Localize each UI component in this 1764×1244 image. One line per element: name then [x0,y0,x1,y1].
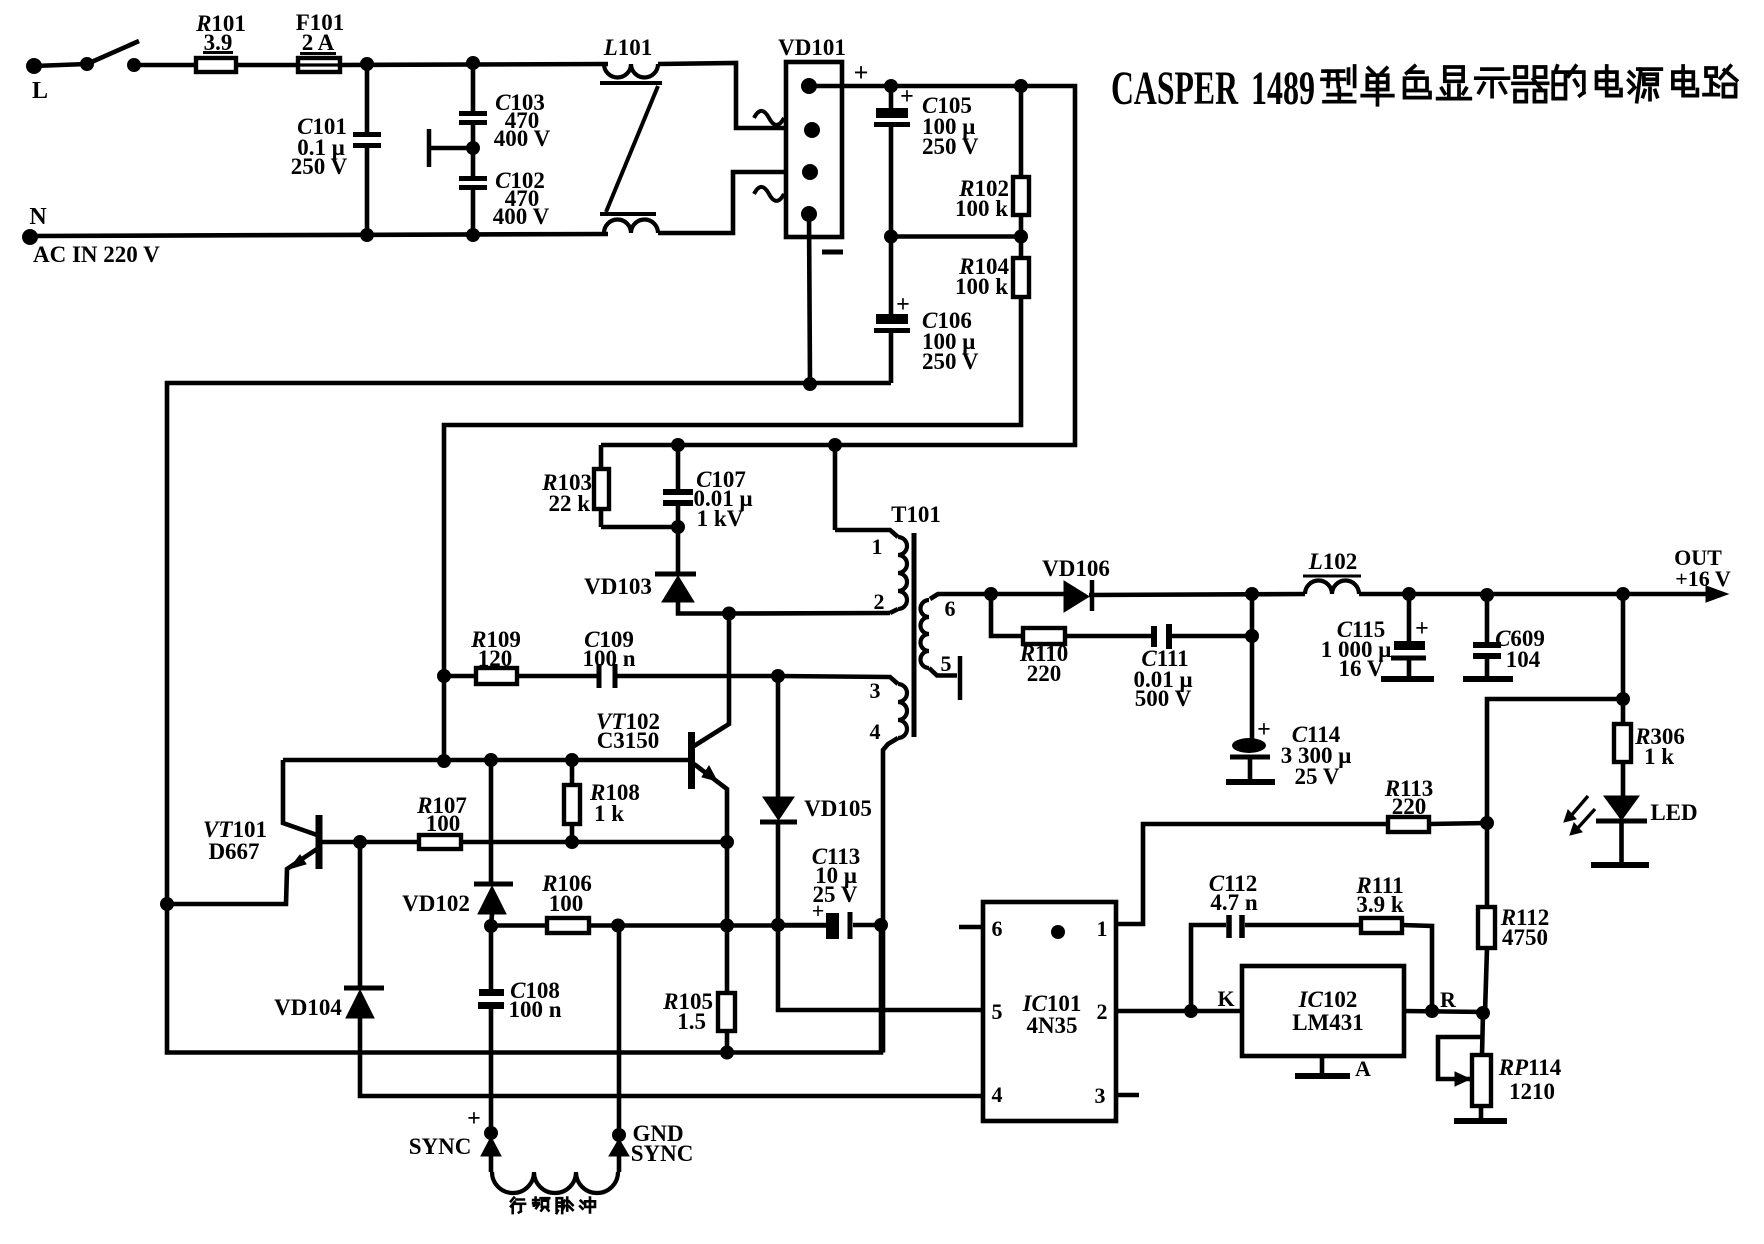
svg-text:+: + [854,58,869,87]
svg-text:1 k: 1 k [1644,744,1674,769]
svg-text:SYNC: SYNC [409,1134,472,1159]
junction: VD102 anode / R106 / C108 [484,919,498,933]
svg-text:250 V: 250 V [291,154,348,179]
junction: R pin / R111 [1425,1004,1439,1018]
resistor R101 3.9 [196,58,236,72]
LED light arrows [1570,796,1588,817]
title Chinese text: model monochrome display power supply circuit [1322,66,1355,102]
capacitor C112 4.7n [1191,925,1226,1011]
svg-text:2: 2 [874,589,885,614]
wire T101 pin1 branch [833,445,838,530]
capacitor C103 470 400V [471,63,476,112]
node GND SYNC terminal [612,1128,626,1142]
svg-text:100 k: 100 k [955,196,1008,221]
svg-text:1489: 1489 [1251,62,1315,115]
junction: VT101 emitter / return rail [160,897,174,911]
diode VD104 [358,842,363,988]
wire bridge - output down [809,214,810,384]
svg-text:+: + [1257,717,1271,743]
svg-text:T101: T101 [891,502,941,527]
svg-text:+: + [467,1106,481,1132]
wire + rail to HV feed corner [835,86,1075,445]
svg-text:IC102: IC102 [1298,987,1358,1012]
svg-text:100: 100 [549,891,584,916]
svg-text:VD101: VD101 [778,35,846,60]
wire VD104 anode to ground line [360,1018,983,1096]
wire feedback tap to R113/R112 node [1487,699,1623,823]
svg-text:3.9 k: 3.9 k [1356,892,1404,917]
node N (AC neutral terminal) [22,229,38,245]
wire C109 to T101 pin3 [617,674,778,679]
shunt regulator IC102 LM431 [1242,966,1404,1056]
svg-text:1.5: 1.5 [677,1009,706,1034]
resistor R105 1.5 [725,926,730,994]
sync coupling coil (line-frequency pulse source) [489,1156,494,1172]
wire T101 pin2 line [729,611,890,616]
junction: base line / VD102 [484,753,498,767]
svg-text:1 kV: 1 kV [697,506,744,531]
resistor R107 100 [419,835,461,849]
svg-text:1: 1 [872,534,883,559]
wire T101 pin6 to rectifier node [937,592,991,597]
svg-text:25 V: 25 V [1295,764,1340,789]
svg-text:CASPER: CASPER [1111,62,1239,115]
optocoupler IC101 4N35 [983,902,1116,1121]
junction: + rail / R102 [1014,79,1028,93]
potentiometer RP114 1210 [1482,1013,1483,1055]
wire +16V output rail [1359,592,1714,597]
svg-text:500 V: 500 V [1135,686,1192,711]
svg-text:D667: D667 [208,839,259,864]
svg-text:100 n: 100 n [508,997,561,1022]
svg-text:VD103: VD103 [584,574,652,599]
svg-text:VD105: VD105 [804,796,872,821]
svg-text:K: K [1217,986,1234,1011]
svg-text:1: 1 [1097,916,1108,941]
capacitor C102 470 400V [471,148,476,177]
junction: base line / R108 [565,753,579,767]
junction: R106 / GND SYNC drop [611,919,625,933]
svg-text:400 V: 400 V [493,204,550,229]
resistor R106 100 [491,923,547,928]
ground: RP114 [1479,1106,1484,1120]
diode VD106 [991,592,1064,597]
svg-text:5: 5 [992,999,1003,1024]
wire L101 top to bridge ~ input 1 [658,63,788,128]
wire VT101 collector to base line [283,760,317,835]
node L (AC live terminal) [26,58,42,74]
svg-text:A: A [1355,1056,1371,1081]
svg-text:R: R [1440,987,1457,1012]
junction: C103 / C102 / chassis stub [466,141,480,155]
junction: R113 / R112 / +16V dropper [1480,816,1494,830]
svg-text:250 V: 250 V [922,134,979,159]
wire N rail [30,234,608,236]
svg-text:100 n: 100 n [582,646,635,671]
capacitor C609 104 [1485,595,1490,643]
VD101 ~ symbol lower [754,187,784,201]
VD101 ~ symbol upper [754,111,784,125]
junction: R107 line / R108 [565,835,579,849]
junction: +16V / R306 branch [1616,587,1630,601]
wire bridge + output rail [809,84,891,89]
RP114 wiper arm [1438,1037,1482,1079]
svg-text:1 k: 1 k [594,801,624,826]
ground: C114 [1226,779,1275,785]
resistor R109 120 [444,674,476,679]
resistor R113 220 [1388,817,1429,832]
svg-text:LM431: LM431 [1292,1010,1364,1035]
wire VT101 base to R107 line [322,840,727,845]
ground: C115 [1381,676,1434,682]
junction: pin6 / VD106 / R110 [984,587,998,601]
svg-text:VD102: VD102 [402,891,470,916]
wire R103/C107 bottom node [601,525,678,530]
LED indicator diode [1621,762,1626,797]
diode VD103 [676,527,681,574]
wire IC101 pin1 to R113 [1116,824,1388,924]
junction: R107 line / VD104 [353,835,367,849]
svg-text:4N35: 4N35 [1026,1013,1077,1038]
svg-text:RP114: RP114 [1498,1055,1562,1080]
wire R101 to F101 [236,63,298,68]
junction: N rail / C101 [360,228,374,242]
svg-text:25 V: 25 V [813,882,858,907]
junction: +16V / C115 [1402,587,1416,601]
wire IC102 R to R112 [1404,1011,1485,1012]
chassis connection at T101 pin 5 [958,656,963,700]
svg-text:+: + [1415,616,1429,642]
junction: R104 feed / R109 [437,669,451,683]
IC102 pin A with ground [1320,1056,1325,1074]
svg-text:AC IN 220 V: AC IN 220 V [33,242,160,267]
T101 primary winding pins 1-2 [835,530,898,537]
capacitor C107 0.01u 1kV [676,445,681,490]
junction: pin4 line / C113 [874,918,888,932]
resistor R108 1k [570,760,575,785]
chassis connection stub at C103/C102 midpoint [430,146,473,151]
junction: L rail / C103 [466,56,480,70]
svg-text:+: + [900,84,914,110]
svg-text:2 A: 2 A [302,30,335,55]
svg-text:VD106: VD106 [1042,556,1110,581]
svg-text:6: 6 [992,916,1003,941]
svg-text:120: 120 [478,646,513,671]
svg-text:104: 104 [1506,647,1541,672]
T101 feedback winding pins 3-4 [778,676,898,684]
svg-text:LED: LED [1650,800,1697,825]
junction: pin2 line / C112 branch [1184,1004,1198,1018]
IC101 pin 6 stub [959,925,983,930]
junction: R105 / primary return rail [720,1046,734,1060]
capacitor C115 1000u 16V (electrolytic) [1407,594,1412,642]
svg-text:6: 6 [945,596,956,621]
junction: C107 / VD103 [671,520,685,534]
wire primary return rail (C106- to left edge, down to bottom) [167,383,891,1053]
svg-text:L101: L101 [603,35,653,60]
wire +16V to R306 [1621,594,1626,724]
svg-text:4.7 n: 4.7 n [1210,890,1258,915]
svg-text:N: N [29,204,47,230]
ground: LED [1591,862,1649,868]
svg-text:250 V: 250 V [922,349,979,374]
junction: VD106 cathode rail / C111 [1245,587,1259,601]
T101 secondary winding pins 6-5 [930,594,938,599]
capacitor C111 0.01u 500V [1065,634,1151,639]
junction: +16V / C609 [1480,588,1494,602]
wire L terminal to switch [34,64,87,66]
wire F101 to L101 (L rail) [340,64,608,65]
svg-text:100: 100 [426,811,461,836]
svg-text:L102: L102 [1308,549,1358,574]
junction: pin3 line / VD105 [771,669,785,683]
svg-text:SYNC: SYNC [631,1141,694,1166]
junction: N rail / C102 [466,228,480,242]
junction: base line / R104 feed [437,754,451,768]
capacitor C109 100n [517,674,597,679]
capacitor C108 100n [489,926,494,990]
junction: bridge - / primary return rail [803,377,817,391]
T101 core [912,533,917,737]
svg-text:22 k: 22 k [548,491,590,516]
node OUT +16V with arrow [1706,586,1728,602]
resistor R112 4750 [1485,823,1490,907]
resistor R102 100k [1019,86,1024,177]
svg-text:220: 220 [1027,661,1062,686]
junction: R107 line / VT102 emitter [720,835,734,849]
wire GND SYNC to R106 node [617,926,622,1136]
svg-text:16 V: 16 V [1339,656,1384,681]
resistor R103 22k [599,445,604,469]
IC101 internal marker dot [1051,925,1065,939]
resistor R111 3.9k [1361,918,1402,933]
label: line-frequency pulse (hang pin mai chong) [511,1198,525,1214]
power switch [80,57,94,71]
svg-text:3: 3 [870,678,881,703]
svg-text:4750: 4750 [1502,925,1548,950]
junction: HV feed / T101 pin1 branch [828,438,842,452]
diode VD105 [776,676,781,797]
wire switch to R101 [134,63,196,68]
junction: C105- / R102 / R104 node [884,230,898,244]
diode VD102 [489,760,494,884]
resistor R306 1k [1614,724,1631,762]
resistor R104 100k [1019,237,1024,259]
wire VD103 anode to T101 pin2 line [678,602,729,614]
ground: C609 [1463,676,1513,682]
junction: L rail / C101 [360,57,374,71]
svg-text:C3150: C3150 [597,728,660,753]
svg-text:2: 2 [1097,999,1108,1024]
svg-text:5: 5 [941,651,952,676]
wire HV feed line R103/C107/T101 pin1 [601,443,835,448]
capacitor C101 0.1u 250V [365,64,370,133]
junction: R106 line / VD105 / IC101 pin5 branch [771,918,785,932]
svg-text:220: 220 [1392,794,1427,819]
svg-text:400 V: 400 V [494,126,551,151]
node SYNC+ input terminal [484,1126,498,1140]
IC101 pin 3 stub [1116,1093,1139,1098]
svg-text:100 k: 100 k [955,274,1008,299]
svg-text:4: 4 [992,1082,1003,1107]
resistor R110 220 [991,594,1023,636]
svg-text:L: L [32,78,48,104]
svg-text:+16 V: +16 V [1675,566,1731,591]
junction: R node / R112 / RP114 [1476,1006,1490,1020]
fuse F101 2A [298,58,340,72]
junction: R306 branch / feedback tap [1616,692,1630,706]
svg-text:3: 3 [1095,1083,1106,1108]
junction: HV feed / C107 [671,438,685,452]
svg-text:4: 4 [870,719,881,744]
svg-text:1210: 1210 [1509,1079,1555,1104]
svg-text:VD104: VD104 [274,995,342,1020]
junction: + rail / C105 [884,79,898,93]
wire L101 bottom to bridge ~ input 2 [658,172,788,233]
wire IC101 pin2 to IC102 K [1116,1009,1242,1014]
VD101 - output label [822,250,843,255]
capacitor C114 3300u 25V (electrolytic) [1250,594,1255,739]
junction: pin2 line / VT102 collector [722,607,736,621]
wire R104 to VT102 base network [444,297,1021,761]
wire VD105 cathode to IC101 pin 5 [778,925,983,1010]
junction: R106 line / VT102 emitter / R105 [720,919,734,933]
